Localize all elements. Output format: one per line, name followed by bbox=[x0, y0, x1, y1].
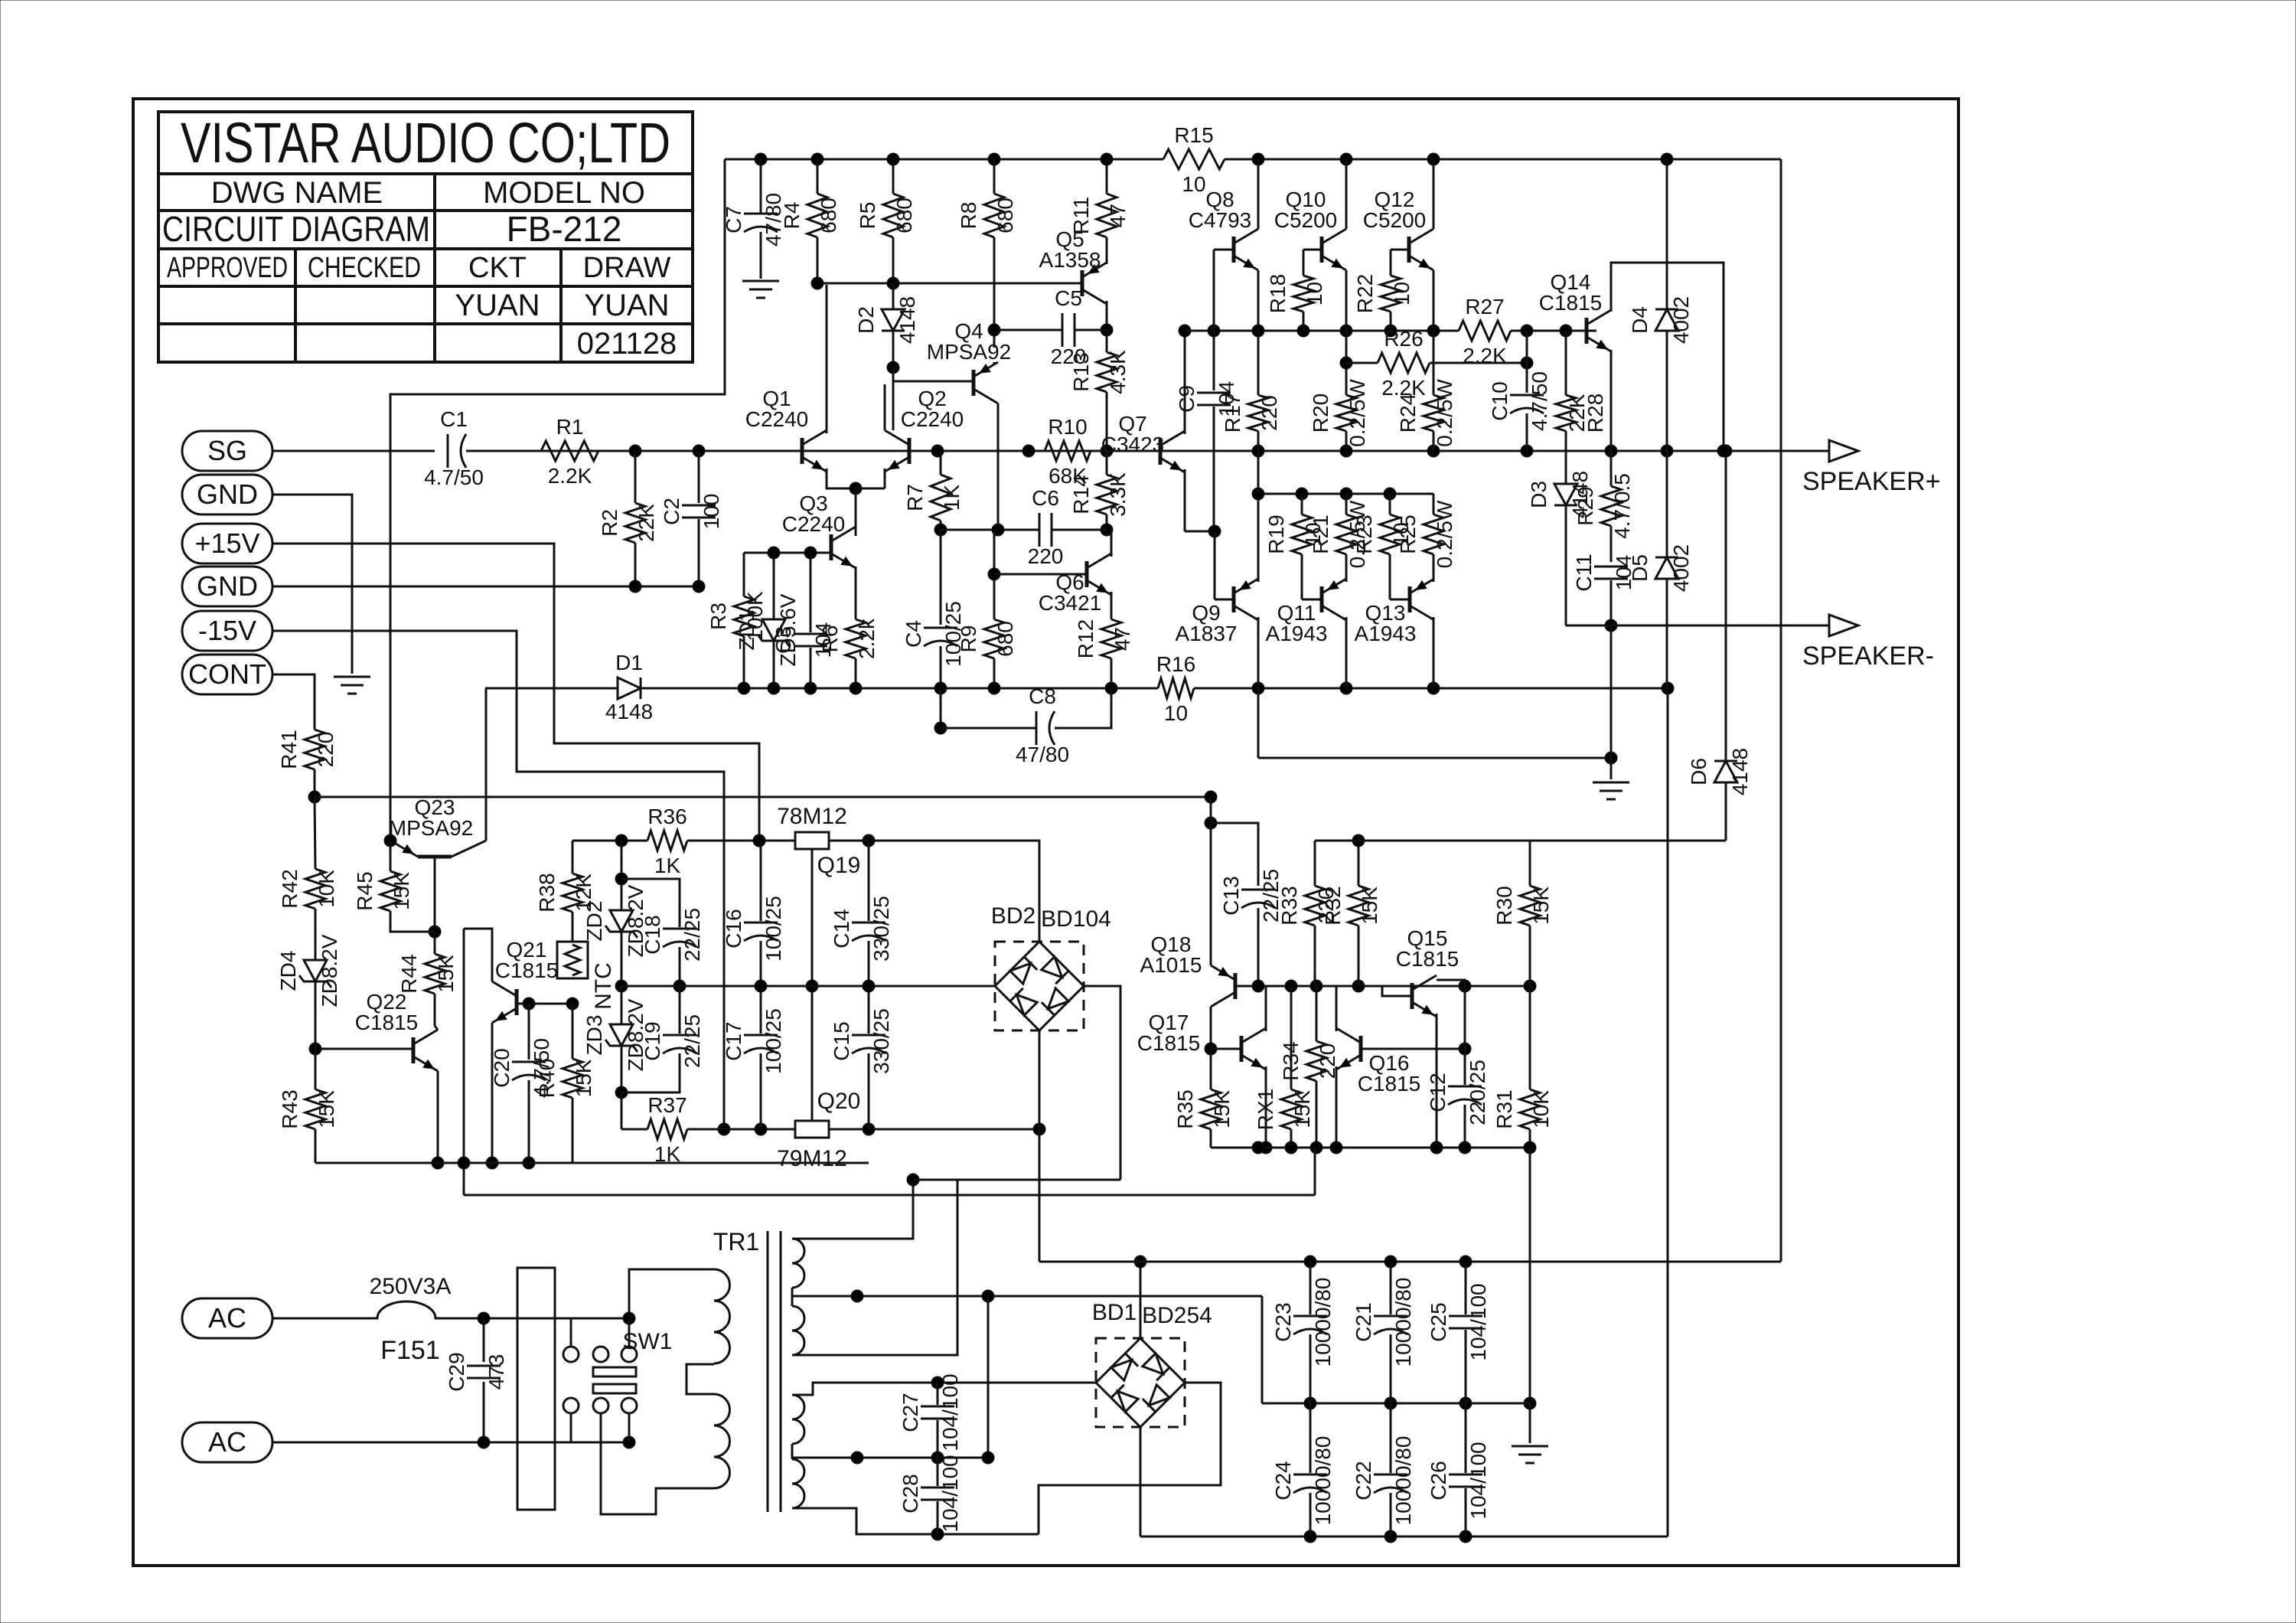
wire C11 bottom bbox=[1610, 580, 1613, 625]
wire C12 bottom bbox=[1464, 1105, 1466, 1148]
svg-text:-15V: -15V bbox=[198, 615, 256, 646]
svg-text:68K: 68K bbox=[1049, 464, 1087, 488]
resistor R11 bbox=[1097, 194, 1117, 237]
wire VAS rail right bbox=[1511, 330, 1596, 332]
junction bbox=[1310, 980, 1322, 992]
ground at supply bbox=[1512, 1445, 1548, 1448]
junction bbox=[1459, 1256, 1472, 1268]
svg-text:R33: R33 bbox=[1277, 886, 1301, 925]
wire C16 top bbox=[760, 841, 762, 921]
wire protection mid rail bbox=[1235, 985, 1530, 988]
resistor R17 bbox=[1248, 395, 1268, 431]
capacitor C12 bbox=[1448, 1086, 1482, 1088]
junction bbox=[623, 1312, 635, 1324]
wire R3 bottom bbox=[743, 636, 745, 688]
wire main 0V rail bbox=[1262, 1403, 1530, 1405]
svg-text:100/25: 100/25 bbox=[762, 896, 785, 962]
wire C3 top bbox=[810, 553, 812, 632]
wire main V- rail bbox=[1140, 1536, 1668, 1538]
wire regulator center column bbox=[811, 849, 814, 1121]
svg-text:10: 10 bbox=[1164, 701, 1188, 725]
svg-text:15K: 15K bbox=[1358, 887, 1381, 925]
svg-text:R42: R42 bbox=[278, 869, 302, 908]
junction bbox=[1661, 445, 1673, 457]
junction bbox=[1384, 488, 1396, 500]
wire Q12 collector up bbox=[1433, 159, 1435, 229]
junction bbox=[887, 153, 899, 165]
TR1 primary winding upper bbox=[714, 1269, 729, 1363]
wire R38 bottom bbox=[572, 912, 574, 942]
wire 12V line to D6 bbox=[1315, 840, 1726, 842]
svg-text:15K: 15K bbox=[434, 955, 458, 993]
wire C27 bottom bbox=[937, 1420, 939, 1458]
capacitor C6 bbox=[1039, 513, 1041, 547]
capacitor C1 bbox=[447, 434, 449, 468]
junction bbox=[851, 1290, 863, 1302]
wire R34 bottom bbox=[1316, 1081, 1318, 1148]
junction bbox=[615, 980, 628, 992]
wire Q10 collector up bbox=[1345, 159, 1348, 229]
wire R43 top bbox=[315, 1049, 317, 1089]
wire RX1 bottom bbox=[1290, 1129, 1293, 1148]
junction bbox=[1208, 525, 1221, 537]
wire R19 top bbox=[1301, 494, 1303, 514]
wire R32 top bbox=[1358, 841, 1360, 886]
svg-text:D4: D4 bbox=[1628, 306, 1652, 334]
wire bias rail bbox=[641, 687, 1158, 690]
wire R25 bottom bbox=[1433, 554, 1435, 582]
wire R32 bottom bbox=[1358, 926, 1360, 986]
wire Q16 emitter down bbox=[1336, 1066, 1338, 1148]
capacitor C4 bbox=[924, 627, 957, 629]
wire CONT control line bbox=[315, 796, 1211, 798]
diode ZD4 bbox=[304, 960, 327, 981]
wire SG to C1 bbox=[272, 450, 435, 452]
wire C23 top bbox=[1309, 1262, 1312, 1314]
resistor R8 bbox=[984, 194, 1004, 237]
svg-text:330/25: 330/25 bbox=[869, 896, 893, 962]
diode D5 bbox=[1655, 557, 1678, 579]
wire R21 bottom bbox=[1345, 554, 1348, 582]
terminal SG bbox=[182, 431, 272, 471]
wire Q6 base bbox=[994, 573, 1087, 576]
wire C1 to R1 bbox=[466, 450, 1163, 452]
junction bbox=[1560, 325, 1572, 337]
junction bbox=[693, 580, 705, 593]
wire R33 bottom bbox=[1314, 926, 1316, 986]
svg-text:C19: C19 bbox=[641, 1021, 664, 1060]
svg-text:R35: R35 bbox=[1173, 1089, 1197, 1128]
junction bbox=[1459, 1530, 1472, 1543]
wire R29 top bbox=[1610, 451, 1613, 486]
wire R25 top bbox=[1433, 494, 1435, 514]
junction bbox=[863, 834, 875, 847]
diode D4 bbox=[1655, 309, 1678, 331]
svg-text:R3: R3 bbox=[706, 603, 730, 630]
junction bbox=[887, 361, 899, 374]
wire protection bottom rail bbox=[1211, 1147, 1530, 1149]
transistor Q16 bbox=[1359, 1036, 1363, 1062]
transistor Q1 bbox=[801, 438, 804, 464]
svg-text:47: 47 bbox=[1110, 627, 1134, 651]
svg-text:220: 220 bbox=[314, 732, 338, 768]
junction bbox=[1205, 791, 1217, 803]
junction bbox=[1179, 325, 1191, 337]
svg-text:680: 680 bbox=[817, 198, 840, 233]
wire Q4 base node to Q2 collector bbox=[892, 367, 895, 430]
resistor R31 bbox=[1520, 1089, 1540, 1129]
transistor Q22 bbox=[412, 1037, 416, 1063]
transistor Q10 bbox=[1320, 237, 1324, 263]
svg-text:R12: R12 bbox=[1074, 619, 1097, 658]
wire R26 right bbox=[1430, 362, 1527, 364]
svg-text:C22: C22 bbox=[1352, 1461, 1375, 1500]
resistor R32 bbox=[1349, 886, 1368, 926]
svg-text:10K: 10K bbox=[315, 870, 338, 908]
wire R45 to R44 bbox=[390, 911, 435, 932]
wire C24 bottom bbox=[1309, 1493, 1312, 1536]
resistor R41 bbox=[305, 730, 325, 769]
wire C16 bottom bbox=[760, 941, 762, 986]
wire bottom resistor bank top line bbox=[1258, 493, 1433, 495]
junction bbox=[1521, 325, 1533, 337]
wire R44 bottom bbox=[434, 994, 436, 1026]
junction bbox=[811, 277, 823, 289]
wire R20 top bbox=[1345, 331, 1348, 395]
wire C15 top bbox=[868, 986, 870, 1034]
wire AC feed line bbox=[913, 1179, 1120, 1181]
junction bbox=[1340, 153, 1352, 165]
svg-text:10: 10 bbox=[1303, 282, 1326, 305]
junction bbox=[931, 1452, 944, 1464]
wire C8 left stub bbox=[940, 688, 942, 728]
wire lower link line bbox=[464, 1194, 1315, 1197]
resistor R14 bbox=[1097, 475, 1117, 514]
junction bbox=[309, 1043, 321, 1055]
svg-text:C16: C16 bbox=[722, 909, 745, 948]
svg-text:C25: C25 bbox=[1427, 1302, 1450, 1341]
junction bbox=[1384, 325, 1397, 337]
resistor R15 bbox=[1163, 149, 1225, 169]
wire R8 bottom to Q4 emitter bbox=[993, 237, 996, 348]
wire R13 bottom bbox=[1106, 392, 1108, 451]
junction bbox=[1459, 980, 1471, 992]
junction bbox=[768, 547, 780, 559]
svg-text:C5: C5 bbox=[1055, 286, 1082, 310]
wire R23 bottom to Q13 base bbox=[1389, 554, 1391, 599]
terminal +15V bbox=[182, 524, 272, 563]
svg-text:CIRCUIT DIAGRAM: CIRCUIT DIAGRAM bbox=[162, 209, 430, 249]
svg-text:C11: C11 bbox=[1572, 554, 1596, 591]
ground at GND1 bbox=[334, 676, 370, 678]
junction bbox=[1304, 1530, 1316, 1543]
svg-text:330/25: 330/25 bbox=[869, 1008, 893, 1074]
wire R19 bottom to Q11 base bbox=[1301, 554, 1303, 599]
svg-text:R38: R38 bbox=[535, 873, 559, 912]
svg-text:GND: GND bbox=[197, 478, 258, 510]
transistor Q7 bbox=[1159, 439, 1163, 465]
wire R5 top bbox=[892, 159, 895, 194]
svg-text:BD2: BD2 bbox=[991, 903, 1035, 929]
diode ZD3 bbox=[610, 1024, 633, 1046]
wire Q22 collector bbox=[435, 1026, 438, 1030]
svg-text:R43: R43 bbox=[278, 1089, 302, 1128]
wire R37 left bbox=[621, 1128, 647, 1131]
svg-text:R22: R22 bbox=[1353, 274, 1377, 313]
svg-text:C2240: C2240 bbox=[745, 407, 809, 431]
wire ZD1 top bbox=[773, 553, 775, 619]
svg-text:100: 100 bbox=[700, 494, 723, 530]
svg-text:C28: C28 bbox=[899, 1474, 922, 1513]
junction bbox=[1205, 817, 1217, 829]
ground at C7 bbox=[742, 280, 779, 282]
wire C4 bottom bbox=[940, 646, 942, 688]
wire R35 bottom bbox=[1210, 1129, 1212, 1148]
junction bbox=[1524, 1141, 1536, 1154]
junction bbox=[934, 722, 947, 734]
wire C26 bottom bbox=[1465, 1488, 1467, 1536]
wire Q15 base bbox=[1382, 986, 1412, 996]
junction bbox=[1304, 1256, 1316, 1268]
junction bbox=[738, 682, 750, 694]
wire R9 top bbox=[993, 530, 996, 619]
wire Q12 base bbox=[1391, 249, 1409, 251]
svg-text:+15V: +15V bbox=[194, 527, 259, 559]
wire Q1-collector rail to Q5 base bbox=[817, 282, 1082, 285]
wire C23 bottom bbox=[1309, 1334, 1312, 1403]
svg-text:R31: R31 bbox=[1492, 1089, 1516, 1128]
svg-text:YUAN: YUAN bbox=[455, 289, 540, 322]
wire R28 top bbox=[1565, 331, 1567, 395]
wire D6 bottom bbox=[1725, 782, 1727, 841]
svg-text:D3: D3 bbox=[1527, 481, 1551, 508]
wire D5 bottom bbox=[1666, 579, 1668, 688]
wire primary group jumper bbox=[687, 1364, 714, 1394]
junction bbox=[1340, 488, 1352, 500]
wire C8 right bbox=[1055, 688, 1111, 728]
svg-text:C5200: C5200 bbox=[1363, 208, 1427, 232]
svg-text:C7: C7 bbox=[722, 206, 745, 233]
transistor Q13 bbox=[1408, 586, 1412, 612]
junction bbox=[1297, 325, 1309, 337]
svg-text:22/25: 22/25 bbox=[680, 908, 704, 962]
wire Q10 base to R18 bbox=[1303, 250, 1305, 276]
wire Q14 collector route bbox=[1611, 263, 1724, 451]
wire R45 top bbox=[390, 841, 392, 871]
wire +15V to 78M12 input bbox=[272, 544, 759, 841]
svg-text:4002: 4002 bbox=[1669, 296, 1693, 344]
wire Q8 emitter down bbox=[1257, 270, 1260, 331]
svg-text:220: 220 bbox=[1257, 395, 1281, 431]
junction bbox=[1352, 980, 1365, 992]
wire Q9 base drop bbox=[1214, 531, 1216, 599]
resistor R28 bbox=[1556, 395, 1576, 431]
junction bbox=[1296, 488, 1308, 500]
junction bbox=[1260, 1141, 1272, 1154]
capacitor C14 bbox=[852, 922, 885, 924]
wire C12 column bbox=[1464, 986, 1466, 1085]
wire R37 right bbox=[687, 1128, 724, 1131]
svg-text:R36: R36 bbox=[647, 805, 687, 828]
svg-text:C13: C13 bbox=[1219, 876, 1243, 915]
svg-text:R44: R44 bbox=[397, 954, 421, 993]
wire Q9 emitter up bbox=[1257, 494, 1260, 582]
junction bbox=[1459, 1397, 1472, 1409]
wire to supply ground bbox=[1529, 1403, 1531, 1443]
svg-text:C8: C8 bbox=[1029, 684, 1056, 708]
junction bbox=[1252, 153, 1264, 165]
svg-text:ZD4: ZD4 bbox=[276, 951, 300, 991]
diode D2 bbox=[882, 309, 905, 331]
junction bbox=[673, 980, 686, 992]
wire Q8 collector up bbox=[1257, 159, 1260, 229]
svg-text:22/25: 22/25 bbox=[680, 1014, 704, 1068]
junction bbox=[1384, 1256, 1397, 1268]
terminal AC1 bbox=[182, 1298, 272, 1338]
svg-text:APPROVED: APPROVED bbox=[167, 252, 288, 284]
resistor R45 bbox=[380, 871, 400, 911]
svg-text:SPEAKER+: SPEAKER+ bbox=[1802, 467, 1940, 496]
resistor R22 bbox=[1381, 276, 1401, 312]
svg-text:10000/80: 10000/80 bbox=[1311, 1436, 1335, 1526]
wire SPEAKER- line bbox=[1566, 625, 1829, 627]
TR1 secondary winding B2 bbox=[792, 1459, 804, 1508]
wire -15V to 79M12 input bbox=[272, 631, 724, 1129]
wire secondary B tap bbox=[792, 1457, 988, 1459]
svg-text:250V3A: 250V3A bbox=[370, 1274, 452, 1299]
svg-text:AC: AC bbox=[208, 1302, 246, 1334]
capacitor C5 bbox=[1062, 313, 1064, 347]
junction bbox=[615, 873, 628, 885]
wire Q15 emitter to rail bbox=[1437, 980, 1465, 986]
svg-text:ZD8.2V: ZD8.2V bbox=[318, 934, 341, 1007]
junction bbox=[755, 980, 767, 992]
svg-text:A1358: A1358 bbox=[1039, 248, 1101, 272]
svg-text:2.2k: 2.2k bbox=[855, 618, 879, 659]
svg-text:3.3K: 3.3K bbox=[1106, 472, 1130, 517]
wire R14 top bbox=[1106, 451, 1108, 475]
wire Q9 base bbox=[1215, 599, 1234, 601]
svg-text:ZD2: ZD2 bbox=[582, 901, 606, 942]
capacitor C25 bbox=[1449, 1315, 1482, 1318]
svg-text:C14: C14 bbox=[830, 909, 853, 948]
svg-text:C27: C27 bbox=[899, 1393, 922, 1432]
svg-text:22K: 22K bbox=[1565, 394, 1589, 432]
wire bias rail with D1 bbox=[485, 687, 618, 690]
junction bbox=[768, 682, 780, 694]
wire emitters to Q3 collector bbox=[855, 488, 857, 536]
wire output rail to SPEAKER+ bbox=[1107, 450, 1829, 452]
wire C18 branch bbox=[621, 879, 680, 927]
wire Q4 emitter join bbox=[993, 362, 996, 365]
wire secondary A bottom bbox=[792, 1180, 957, 1355]
wire Q13 emitter bbox=[1433, 579, 1435, 582]
wire R30 bottom bbox=[1529, 926, 1531, 986]
wire BD2 right vertex bbox=[1084, 986, 1120, 1180]
wire V+ top rail right bbox=[1225, 158, 1781, 161]
wire ZD1 bottom bbox=[773, 641, 775, 688]
svg-text:4002: 4002 bbox=[1669, 544, 1693, 592]
wire C29 bottom bbox=[483, 1382, 485, 1442]
wire R43 to bottom rail bbox=[315, 1129, 317, 1163]
junction bbox=[1430, 1141, 1443, 1154]
svg-text:C6: C6 bbox=[1032, 486, 1059, 510]
resistor R27 bbox=[1459, 321, 1511, 341]
TR1 winding connector stubs bbox=[791, 1288, 794, 1306]
resistor R23 bbox=[1380, 514, 1400, 554]
junction bbox=[1205, 1043, 1217, 1055]
svg-text:0.2/5W: 0.2/5W bbox=[1345, 379, 1369, 447]
svg-text:FB-212: FB-212 bbox=[507, 209, 622, 249]
wire C21 top bbox=[1390, 1262, 1392, 1314]
junction bbox=[804, 547, 817, 559]
wire C20 top bbox=[528, 1004, 530, 1060]
junction bbox=[988, 682, 1000, 694]
junction bbox=[478, 1436, 490, 1448]
junction bbox=[718, 1123, 730, 1135]
junction bbox=[1022, 445, 1035, 457]
wire VAS rail bbox=[1185, 330, 1459, 332]
wire R4 top bbox=[817, 159, 819, 194]
wire C26 top bbox=[1465, 1403, 1467, 1473]
svg-text:TR1: TR1 bbox=[713, 1228, 759, 1256]
wire Q18 collector bbox=[1210, 1007, 1212, 1049]
wire C15 bottom bbox=[868, 1053, 870, 1129]
svg-text:680: 680 bbox=[993, 621, 1017, 657]
wire Q21 collector loop bbox=[464, 929, 492, 981]
wire diff pair emitters bbox=[827, 469, 885, 488]
svg-text:GND: GND bbox=[197, 570, 258, 602]
TR1 primary winding lower bbox=[714, 1394, 729, 1488]
junction bbox=[1720, 445, 1732, 457]
svg-text:C5200: C5200 bbox=[1274, 208, 1338, 232]
junction bbox=[308, 791, 321, 803]
resistor R4 bbox=[807, 194, 827, 237]
junction bbox=[458, 1157, 470, 1169]
wire R33 top bbox=[1314, 841, 1316, 886]
junction bbox=[429, 926, 441, 938]
svg-text:22K: 22K bbox=[634, 504, 658, 542]
terminal -15V bbox=[182, 611, 272, 651]
svg-text:R5: R5 bbox=[856, 202, 879, 230]
svg-text:104/100: 104/100 bbox=[1466, 1283, 1490, 1360]
wire switch contacts bbox=[570, 1318, 572, 1347]
junction bbox=[1252, 488, 1264, 500]
filter block bbox=[517, 1268, 555, 1510]
svg-text:10000/80: 10000/80 bbox=[1391, 1278, 1415, 1367]
svg-text:BD104: BD104 bbox=[1041, 906, 1111, 932]
svg-text:R45: R45 bbox=[353, 871, 377, 910]
resistor R24 bbox=[1424, 395, 1443, 431]
resistor R6 bbox=[846, 619, 866, 658]
transistor Q6 bbox=[1085, 561, 1089, 587]
junction bbox=[931, 1376, 944, 1389]
wire BD1 bottom column bbox=[1140, 1427, 1142, 1536]
wire C13 feed bbox=[1211, 823, 1258, 886]
wire Q22 base bbox=[315, 1048, 413, 1050]
resistor R2 bbox=[625, 503, 645, 543]
resistor R7 bbox=[931, 475, 951, 521]
wire Q10 base bbox=[1303, 249, 1322, 251]
svg-text:D6: D6 bbox=[1687, 758, 1711, 785]
wire main V+ rail bbox=[1039, 1261, 1781, 1263]
junction bbox=[755, 1123, 767, 1135]
svg-text:4148: 4148 bbox=[1728, 748, 1752, 795]
svg-text:0.2/5W: 0.2/5W bbox=[1433, 379, 1456, 447]
junction bbox=[1105, 682, 1117, 694]
svg-text:4.7/0.5: 4.7/0.5 bbox=[1610, 473, 1634, 539]
junction bbox=[863, 980, 875, 992]
